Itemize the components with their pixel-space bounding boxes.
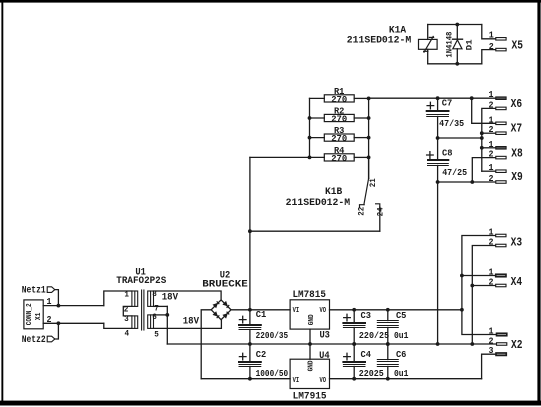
capacitor C8 plus sign: [427, 152, 434, 159]
connector X4 pin 1 pad: [496, 274, 506, 277]
svg-text:0u1: 0u1: [394, 368, 409, 379]
capacitor C2 plus sign: [239, 353, 246, 360]
wire Netz2 to X1 pin 2: [55, 323, 59, 339]
svg-text:GND: GND: [308, 360, 316, 371]
junction 0V at C5: [386, 342, 390, 346]
junction -15V at C6: [386, 377, 390, 381]
junction node A at C7: [436, 96, 440, 100]
wire to X5 pin 1: [482, 25, 496, 39]
svg-text:2: 2: [489, 238, 494, 248]
svg-text:U4: U4: [319, 351, 330, 362]
transformer U1 primary winding 3-4: [132, 316, 138, 329]
wire U3 GND to 0V rail: [309, 329, 311, 344]
connector X1 pin 1 wire: [43, 305, 104, 307]
wire R1 right lead: [354, 97, 368, 99]
bottom plate: [377, 365, 398, 367]
svg-text:2: 2: [47, 315, 52, 325]
wire jumper pins 2-3 (primary series): [123, 306, 132, 316]
capacitor C1 plus sign: [239, 316, 246, 323]
wire R2 right lead: [354, 117, 368, 119]
wire U4 GND to 0V rail: [309, 344, 311, 359]
capacitor C1 lead bottom: [249, 330, 251, 345]
svg-text:VO: VO: [320, 377, 327, 385]
connector X8 pin 1 pad: [496, 147, 506, 150]
capacitor C1 lead top: [249, 310, 251, 325]
capacitor C1 top plate: [239, 324, 261, 326]
svg-text:18V: 18V: [162, 292, 178, 303]
wire raw +V vertical rail: [249, 157, 251, 309]
svg-text:X8: X8: [511, 146, 523, 160]
svg-text:270: 270: [331, 94, 347, 105]
wire node B horizontal: [438, 137, 482, 139]
svg-text:1: 1: [489, 327, 495, 337]
svg-text:1: 1: [489, 115, 495, 125]
wire 0V rail: [167, 343, 496, 345]
junction -15V at C4: [352, 377, 356, 381]
capacitor C3 top plate: [343, 322, 365, 324]
wire coil top to X5 net: [428, 24, 482, 26]
wire X9 pin1 branch: [482, 170, 496, 172]
wire X7 pin2 branch: [482, 132, 496, 134]
junction raw +V at bridge output: [248, 308, 252, 312]
junction right rail R4: [367, 156, 371, 160]
transformer U1 secondary winding 8-7: [148, 291, 154, 306]
svg-text:21: 21: [368, 178, 378, 187]
svg-text:24: 24: [375, 207, 385, 216]
wire R4 left to raw +V rail: [250, 156, 310, 158]
svg-text:1: 1: [489, 163, 495, 173]
connector X2 pin 1 pad: [497, 333, 507, 336]
wire transformer pin 5 to bridge AC bottom: [154, 320, 222, 328]
svg-text:4: 4: [125, 328, 130, 338]
connector X6 pin 1 pad: [496, 97, 506, 100]
svg-text:C8: C8: [442, 147, 453, 158]
capacitor C4 lead top: [353, 344, 355, 362]
wire R3 left lead: [310, 137, 325, 139]
wire center tap vertical: [166, 306, 168, 344]
wire X3 pin 2 branch: [472, 246, 495, 345]
capacitor C4 plus sign: [344, 353, 351, 360]
junction node C at C8 bottom: [436, 180, 440, 184]
junction 0V at C6: [386, 342, 390, 346]
capacitor C6: [377, 344, 398, 379]
net label Netz2 flag: [47, 336, 55, 342]
junction +15V riser at U3 VO: [460, 308, 464, 312]
svg-text:270: 270: [331, 113, 347, 124]
capacitor C1 bottom plate: [239, 328, 261, 330]
svg-text:C6: C6: [396, 349, 407, 360]
svg-text:BRUECKE: BRUECKE: [202, 279, 248, 290]
svg-text:X4: X4: [511, 275, 523, 289]
capacitor C7 plus sign: [427, 102, 434, 109]
svg-text:2: 2: [489, 125, 494, 135]
svg-text:18V: 18V: [183, 317, 199, 328]
svg-text:220/25: 220/25: [359, 330, 390, 341]
junction 0V rail at X3/X4 branch: [470, 342, 474, 346]
svg-text:2: 2: [489, 42, 494, 52]
wire resistor array right rail: [368, 98, 370, 178]
svg-text:1N4148: 1N4148: [444, 32, 454, 58]
relay contact K1B contact 22 mark: [360, 205, 365, 208]
capacitor C8 top plate: [428, 159, 448, 161]
connector X9 pin 1 pad: [496, 170, 506, 173]
capacitor C8 bottom plate: [428, 164, 449, 166]
svg-text:1000/50: 1000/50: [256, 368, 289, 379]
svg-text:5: 5: [154, 330, 159, 340]
wire node B vertical: [481, 133, 483, 171]
wire coil top lead: [427, 25, 429, 40]
wire bridge DC- left: [201, 310, 211, 379]
svg-text:1: 1: [489, 140, 495, 150]
svg-text:C7: C7: [442, 98, 453, 109]
svg-text:22: 22: [357, 207, 367, 216]
svg-text:U3: U3: [319, 331, 330, 342]
capacitor C7 top plate: [427, 110, 449, 112]
capacitor C5: [377, 310, 398, 344]
lead bottom: [387, 328, 389, 345]
resistor R2: [324, 114, 354, 121]
connector X7 pin 2 pad: [496, 132, 506, 135]
junction 0V rail at U3/U4 GND: [308, 342, 312, 346]
svg-text:0u1: 0u1: [394, 330, 409, 341]
wire to X5 pin 2: [482, 50, 496, 64]
wire R4 right lead: [354, 156, 368, 158]
svg-text:3: 3: [489, 346, 494, 356]
junction Netz2 / X1 pin2: [57, 321, 61, 325]
svg-text:Netz2: Netz2: [22, 335, 46, 346]
wire bridge DC+ to C1/U3: [231, 309, 290, 311]
relay contact K1B contact 24 mark: [376, 204, 380, 209]
svg-text:K1B: K1B: [325, 187, 342, 198]
capacitor C4 top plate: [343, 361, 365, 363]
svg-text:CONN_2: CONN_2: [26, 303, 34, 325]
lead bottom: [387, 367, 389, 379]
wire +15V rail from U3 VO: [330, 309, 462, 311]
transformer U1 primary winding 1-2: [132, 291, 138, 306]
relay contact K1B movable arm: [364, 178, 369, 204]
wire contact 24 to raw +V rail: [250, 230, 380, 232]
connector X7 pin 1 pad: [496, 122, 506, 125]
capacitor C2 lead top: [249, 344, 251, 362]
junction node B at X7.2: [480, 131, 484, 135]
lead top: [387, 344, 389, 360]
svg-text:VO: VO: [320, 307, 327, 315]
junction raw -V at C2: [248, 377, 252, 381]
wire X4 pin 1 branch: [462, 275, 496, 277]
resistor R1: [324, 95, 354, 102]
junction center tap pins 7-6: [165, 313, 169, 317]
svg-text:VI: VI: [293, 377, 300, 385]
svg-text:270: 270: [331, 153, 347, 164]
connector X2 pin 3 pad: [496, 353, 506, 356]
junction +15V at C3: [352, 308, 356, 312]
wire contact 24 down: [379, 207, 381, 231]
bottom plate: [377, 326, 398, 328]
wire transformer pin 6 stub: [154, 314, 168, 316]
connector X5 pin 2 pad: [496, 48, 506, 51]
wire R2 left lead: [310, 117, 325, 119]
svg-text:47/25: 47/25: [442, 167, 467, 178]
svg-text:C1: C1: [256, 309, 267, 320]
relay coil K1A: [419, 37, 438, 53]
capacitor C8 top lead from node B: [437, 138, 439, 160]
diode D1: [453, 39, 463, 49]
wire node C down to 0V rail: [437, 182, 439, 344]
connector X2 pin 2 pad: [497, 343, 507, 346]
wire R3 right lead: [354, 137, 368, 139]
capacitor C7 lead top: [437, 98, 439, 111]
svg-text:211SED012-M: 211SED012-M: [347, 35, 412, 46]
svg-text:LM7915: LM7915: [293, 390, 327, 402]
capacitor C3 plus sign: [344, 314, 351, 321]
net label Netz1 flag: [47, 287, 55, 293]
lead top: [387, 310, 389, 321]
svg-text:D1: D1: [464, 39, 474, 50]
svg-text:6: 6: [152, 312, 157, 322]
regulator U3 body: [290, 300, 329, 329]
svg-text:C5: C5: [396, 310, 407, 321]
wire X6 pin2 branch: [482, 108, 496, 133]
junction 0V at C3: [352, 342, 356, 346]
junction X4 pin1 riser: [460, 274, 464, 278]
wire node C horizontal to X9.2: [438, 181, 496, 183]
connector X1 body: [24, 300, 43, 329]
connector X3 pin 1 pad: [496, 234, 506, 237]
junction Netz1 / X1 pin1: [57, 304, 61, 308]
transformer U1 secondary winding 6-5: [148, 315, 154, 329]
wire +15V riser to X2 pin 1: [462, 310, 497, 335]
junction coil-top / diode D1: [455, 23, 459, 27]
junction raw +V rail at y231: [248, 229, 252, 233]
junction left rail R2: [308, 116, 312, 120]
svg-text:2: 2: [489, 278, 494, 288]
svg-text:1: 1: [489, 90, 495, 100]
svg-text:2: 2: [489, 336, 494, 346]
junction X4 pin2 riser: [470, 284, 474, 288]
top plate: [377, 321, 398, 323]
wire +15V to X3 pin 1: [462, 236, 496, 310]
svg-text:1: 1: [489, 268, 495, 278]
svg-text:C2: C2: [256, 349, 267, 360]
diode D1 anode lead: [456, 25, 458, 40]
svg-text:2: 2: [489, 174, 494, 184]
svg-text:X2: X2: [511, 338, 523, 352]
svg-text:X9: X9: [511, 170, 523, 184]
junction node C at X8.2: [470, 180, 474, 184]
wire coil bottom to X5 net: [428, 63, 482, 65]
wire R1 left lead: [310, 97, 325, 99]
wire -15V rail from U4 VO: [330, 378, 482, 380]
wire transformer pin 7 stub: [154, 305, 168, 307]
svg-text:GND: GND: [308, 314, 316, 325]
diode D1 cathode lead: [456, 49, 458, 64]
svg-text:22025: 22025: [359, 368, 384, 379]
junction node B at X8.1: [480, 146, 484, 150]
svg-text:1: 1: [489, 228, 495, 238]
svg-text:2: 2: [489, 100, 494, 110]
connector X1 pin 2 wire: [43, 322, 104, 324]
wire raw -V bottom to C2/U4: [201, 378, 290, 380]
svg-text:X5: X5: [511, 39, 523, 53]
svg-text:270: 270: [331, 133, 347, 144]
wire X1 pin2 to transformer pin 4: [104, 323, 132, 328]
svg-text:TRAFO2P2S: TRAFO2P2S: [116, 276, 166, 287]
junction node A to X6/X7 branch: [470, 96, 474, 100]
svg-text:211SED012-M: 211SED012-M: [286, 198, 351, 209]
wire resistor array left rail: [309, 98, 311, 157]
junction right rail R3: [367, 136, 371, 140]
svg-text:2: 2: [489, 150, 494, 160]
junction node B wire: [480, 136, 484, 140]
resistor R4: [324, 154, 354, 161]
junction 0V rail at node C drop: [436, 342, 440, 346]
svg-text:X3: X3: [511, 235, 523, 249]
junction coil-bottom / diode D1: [455, 62, 459, 66]
connector X4 pin 2 pad: [496, 284, 506, 287]
wire transformer pin 8 to bridge AC top: [154, 291, 222, 299]
svg-text:C3: C3: [361, 310, 372, 321]
junction left rail R4: [308, 156, 312, 160]
wire -15V to X2 pin 3: [482, 354, 496, 379]
capacitor C3 lead top: [353, 310, 355, 323]
top plate: [377, 360, 398, 362]
svg-text:47/35: 47/35: [439, 118, 464, 129]
junction +15V at C5: [386, 308, 390, 312]
resistor R3: [324, 134, 354, 141]
junction node B at C7 bottom: [436, 136, 440, 140]
svg-text:VI: VI: [293, 307, 300, 315]
capacitor C7 bottom plate: [427, 115, 449, 117]
svg-text:1: 1: [489, 31, 495, 41]
transformer U1 core: [142, 290, 144, 330]
capacitor C4 bottom plate: [343, 365, 365, 367]
wire X8 pin1 branch: [482, 147, 496, 149]
bridge rectifier U2: [211, 300, 231, 320]
relay contact K1B pin 21 stub: [368, 157, 370, 178]
wire X1 pin1 to transformer pin 1: [104, 291, 132, 306]
wire X7 pin1 branch: [472, 98, 496, 123]
wire node A: resistor array to C7 and X6/X7: [369, 97, 496, 99]
wire coil bottom lead: [427, 49, 429, 64]
svg-text:X6: X6: [511, 97, 523, 111]
capacitor C2 bottom plate: [239, 365, 261, 367]
regulator U4 body: [290, 359, 329, 388]
wire Netz1 to X1 pin 1: [55, 290, 59, 306]
capacitor C4 lead bottom: [353, 367, 355, 379]
junction left rail R3: [308, 136, 312, 140]
junction right rail R2: [367, 116, 371, 120]
capacitor C8 bottom lead: [437, 166, 439, 183]
connector X5 pin 1 pad: [496, 38, 506, 41]
capacitor C7 lead bottom: [437, 117, 439, 139]
svg-text:X1: X1: [35, 313, 43, 321]
capacitor C2 lead bottom: [249, 367, 251, 379]
connector X9 pin 2 pad: [496, 181, 506, 184]
svg-text:1: 1: [47, 297, 53, 307]
capacitor C3 bottom plate: [343, 326, 365, 328]
wire R4 left lead: [310, 156, 325, 158]
connector X3 pin 2 pad: [496, 244, 506, 247]
connector X8 pin 2 pad: [496, 156, 506, 159]
junction 0V rail at C1/C2: [248, 342, 252, 346]
junction 0V at C4: [352, 342, 356, 346]
svg-text:2200/35: 2200/35: [256, 330, 289, 341]
junction right rail R1: [367, 97, 371, 101]
svg-text:Netz1: Netz1: [22, 286, 46, 297]
svg-text:C4: C4: [361, 349, 372, 360]
wire X8 pin2 branch: [472, 158, 496, 182]
capacitor C2 top plate: [239, 361, 261, 363]
capacitor C3 lead bottom: [353, 328, 355, 345]
connector X6 pin 2 pad: [496, 107, 506, 110]
svg-text:X7: X7: [511, 122, 523, 136]
wire X4 pin 2 branch: [472, 285, 495, 287]
